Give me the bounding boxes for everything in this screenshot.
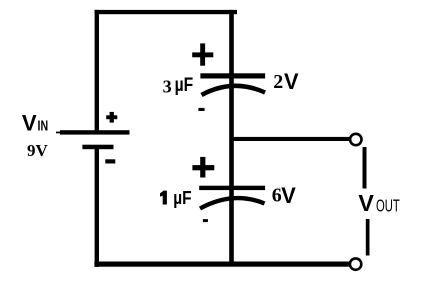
battery V_IN: positive plate (long) <box>60 130 130 134</box>
svg-text:V: V <box>281 183 296 208</box>
svg-text:µF: µF <box>173 187 191 208</box>
label 1 uF <box>160 191 167 205</box>
wire: right vertical stub above bottom terminal <box>366 219 370 256</box>
svg-text:IN: IN <box>38 119 49 135</box>
wire: left vertical lower (battery - plate down to bottom wire) <box>95 147 99 267</box>
capacitor C2: plus sign <box>192 157 214 178</box>
wire: middle node horizontal to top output terminal <box>231 137 350 141</box>
svg-text:2: 2 <box>273 71 283 93</box>
capacitor C1 (3uF): curved bottom plate <box>202 86 266 95</box>
capacitor C1 (3uF): straight top plate <box>200 73 265 78</box>
battery V_IN: plus sign <box>106 112 117 123</box>
battery V_IN: negative plate (short) <box>82 145 113 150</box>
battery V_IN: minus sign <box>105 159 115 163</box>
wire: bottom horizontal from left branch to bottom terminal <box>94 262 348 267</box>
svg-text:µF: µF <box>175 74 194 96</box>
svg-text:3: 3 <box>163 77 172 97</box>
node: bottom output terminal (open circle) <box>350 258 361 269</box>
wire: left vertical upper (top wire down to battery + plate) <box>95 10 99 132</box>
battery V_IN: thin pen tail left of positive plate <box>56 132 61 134</box>
capacitor C1: minus sign <box>198 108 204 111</box>
node: top output terminal (open circle) <box>350 134 361 145</box>
svg-text:9V: 9V <box>27 141 49 160</box>
wire: top horizontal from left branch to capacitor branch <box>95 10 237 14</box>
svg-text:6: 6 <box>272 185 282 207</box>
capacitor C1: plus sign <box>192 43 213 65</box>
wire: right vertical stub below top terminal <box>363 147 367 189</box>
svg-text:V: V <box>22 111 37 136</box>
svg-text:V: V <box>284 69 299 94</box>
capacitor C2 (1uF): curved bottom plate <box>200 198 265 208</box>
svg-text:V: V <box>358 190 374 216</box>
capacitor C2 (1uF): straight top plate <box>199 186 265 190</box>
capacitor C2: minus sign <box>203 219 208 222</box>
svg-text:OUT: OUT <box>376 195 400 215</box>
wire: middle capacitor branch vertical (runs top wire to bottom wire) <box>229 10 234 267</box>
